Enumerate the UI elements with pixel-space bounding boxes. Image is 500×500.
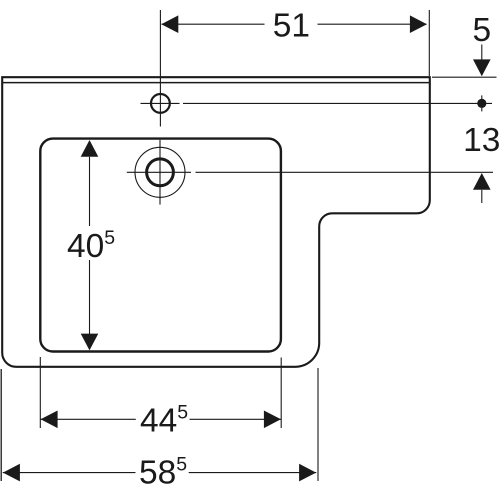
large hole crosshair horizontal extension to 13 dimension <box>196 171 494 173</box>
svg-text:40: 40 <box>67 228 104 265</box>
washbasin outer outline <box>2 77 430 367</box>
dim 5 reference line (top edge extension) <box>432 76 497 78</box>
small hole crosshair vertical / dim 51 left extension <box>159 10 161 127</box>
dim 51 left arrow <box>161 15 178 33</box>
dim 44.5 right arrow <box>264 411 281 429</box>
dim 58.5 right extension line <box>317 368 319 481</box>
reference line from small hole to dot <box>183 102 492 104</box>
dim 40.5 down arrow <box>81 334 99 351</box>
svg-text:13: 13 <box>463 122 500 159</box>
dim 5 down arrow <box>473 59 491 76</box>
dim 44.5 right extension line <box>280 358 282 429</box>
dim 40.5 up arrow <box>81 140 99 157</box>
small hole crosshair horizontal <box>141 102 180 104</box>
dim 51 right arrow <box>410 15 427 33</box>
large hole crosshair horizontal left <box>127 171 191 173</box>
dim 51 right extension line <box>428 10 430 76</box>
dim 44.5 left arrow <box>41 411 58 429</box>
svg-text:5: 5 <box>177 402 188 424</box>
dim 51 line right segment <box>318 23 427 25</box>
dim 44.5 left extension line <box>39 357 41 428</box>
dim 51 line left segment <box>162 23 265 25</box>
large tap hole outer circle <box>135 147 185 197</box>
svg-text:58: 58 <box>139 455 176 492</box>
large hole crosshair vertical <box>159 140 161 205</box>
dim 58.5 left extension line <box>0 369 2 481</box>
svg-text:5: 5 <box>104 227 115 249</box>
dim 44.5 line right segment <box>190 418 282 420</box>
dim 13 stem <box>481 190 483 203</box>
svg-text:5: 5 <box>472 12 491 49</box>
dim 58.5 line right segment <box>189 472 317 474</box>
dot marker at hole centre line <box>477 99 486 108</box>
dot marker vertical tick <box>481 95 483 111</box>
dim 44.5 line left segment <box>40 418 136 420</box>
dim 58.5 left arrow <box>3 464 20 482</box>
rim front edge line <box>3 82 429 84</box>
dim 58.5 right arrow <box>299 464 316 482</box>
large tap hole inner circle <box>147 159 174 186</box>
dim 58.5 line left segment <box>3 472 136 474</box>
svg-text:44: 44 <box>140 403 177 440</box>
svg-text:5: 5 <box>176 454 187 476</box>
svg-text:51: 51 <box>273 7 310 44</box>
inner basin <box>40 139 281 352</box>
small hole circle <box>151 94 170 113</box>
dim 40.5 upper stem <box>89 157 91 226</box>
dim 40.5 lower stem <box>89 260 91 334</box>
dim 13 up arrow <box>473 173 491 190</box>
dim 5 stem <box>481 45 483 61</box>
